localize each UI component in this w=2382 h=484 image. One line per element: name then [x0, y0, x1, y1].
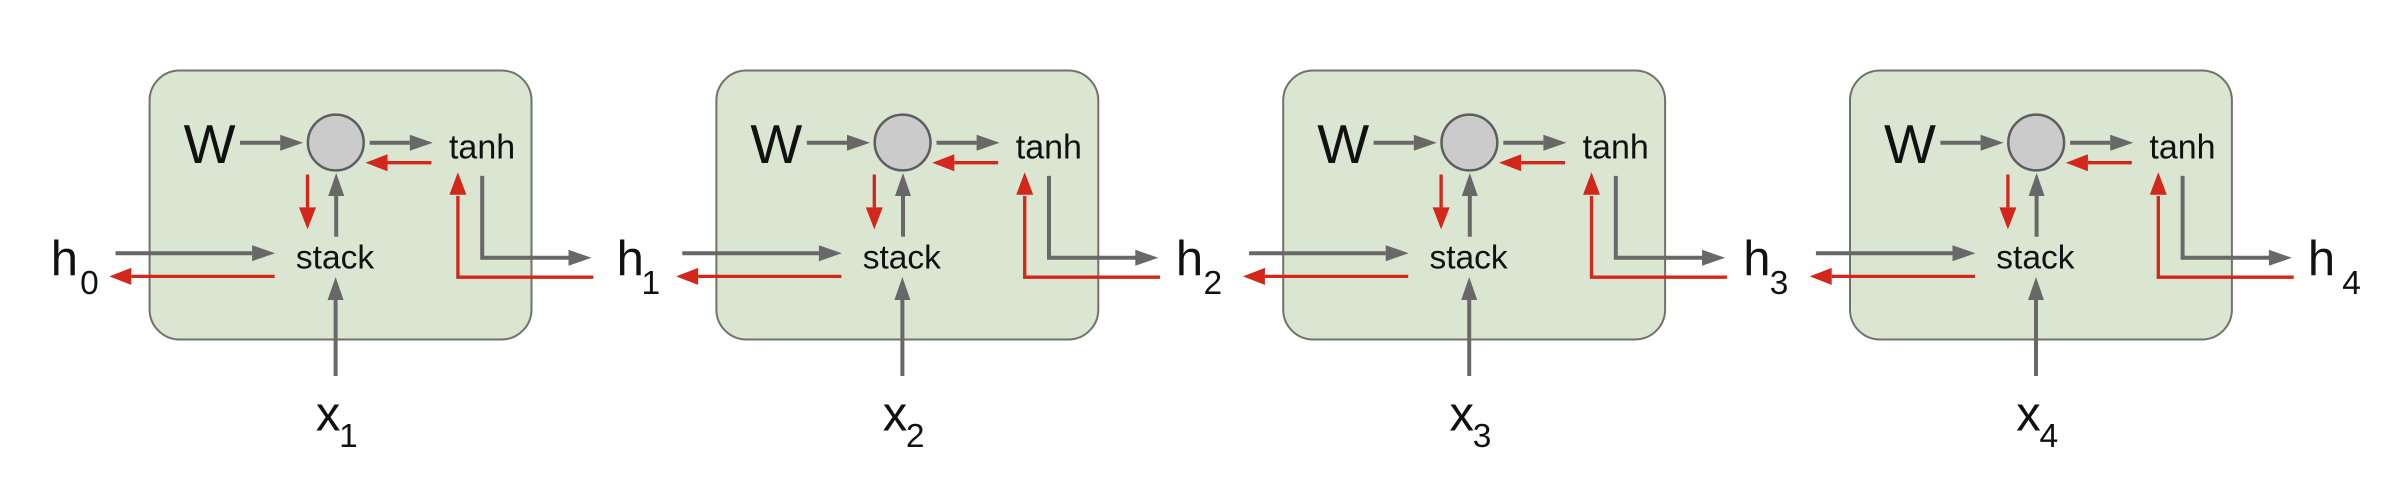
svg-text:x: x: [883, 388, 908, 442]
svg-text:W: W: [1884, 113, 1936, 175]
svg-text:3: 3: [1770, 265, 1789, 302]
node circle (cell 4): [2008, 115, 2064, 171]
svg-text:0: 0: [80, 265, 99, 302]
wire x4 up into stack (cell 4): [2034, 300, 2038, 376]
wire h2 into stack (cell 3): [1249, 251, 1386, 255]
red gradient wire tanh to node (cell 2): [954, 161, 998, 164]
svg-text:W: W: [1317, 113, 1369, 175]
wire x1 up into stack (cell 1): [334, 300, 338, 376]
wire W to node (cell 3): [1374, 141, 1414, 145]
red gradient wire node to stack (cell 1): [306, 175, 309, 208]
wire x2 up into stack (cell 2): [900, 300, 904, 376]
red gradient wire node to stack (cell 4): [2006, 175, 2009, 208]
svg-text:stack: stack: [1430, 240, 1508, 277]
red gradient wire tanh to node (cell 4): [2088, 161, 2132, 164]
red gradient wire from h1 left-up into tanh (cell 1): [458, 196, 593, 277]
wire W to node (cell 4): [1940, 141, 1980, 145]
svg-text:tanh: tanh: [449, 128, 515, 166]
red gradient wire tanh to node (cell 1): [388, 161, 432, 164]
svg-text:h: h: [51, 232, 78, 286]
red gradient wire node to stack (cell 3): [1439, 175, 1442, 208]
svg-text:x: x: [2016, 388, 2041, 442]
svg-text:W: W: [750, 113, 802, 175]
svg-text:3: 3: [1473, 418, 1492, 455]
wire node to tanh (cell 2): [937, 141, 977, 145]
wire W to node (cell 1): [240, 141, 280, 145]
wire h1 into stack (cell 2): [682, 251, 819, 255]
wire stack to node (cell 2): [901, 196, 905, 237]
svg-text:4: 4: [2342, 265, 2361, 302]
node circle (cell 1): [308, 115, 364, 171]
svg-text:h: h: [1743, 232, 1770, 286]
wire tanh down-right out to h4 (cell 4): [2183, 176, 2270, 258]
svg-text:W: W: [184, 113, 236, 175]
wire tanh down-right out to h2 (cell 2): [1049, 176, 1136, 258]
red gradient wire node to stack (cell 2): [873, 175, 876, 208]
wire W to node (cell 2): [807, 141, 847, 145]
svg-text:h: h: [1176, 232, 1203, 286]
red gradient wire from h4 left-up into tanh (cell 4): [2158, 196, 2293, 277]
wire x3 up into stack (cell 3): [1467, 300, 1471, 376]
svg-text:1: 1: [642, 265, 661, 302]
red gradient wire stack back to h2 (cell 3): [1265, 275, 1408, 278]
node circle (cell 3): [1442, 115, 1498, 171]
svg-text:stack: stack: [863, 240, 941, 277]
svg-text:2: 2: [906, 418, 925, 455]
wire h3 into stack (cell 4): [1816, 251, 1953, 255]
red gradient wire tanh to node (cell 3): [1521, 161, 1565, 164]
svg-text:stack: stack: [296, 240, 374, 277]
svg-text:h: h: [2308, 232, 2335, 286]
wire tanh down-right out to h1 (cell 1): [482, 176, 569, 258]
wire node to tanh (cell 3): [1503, 141, 1543, 145]
svg-text:tanh: tanh: [2149, 128, 2215, 166]
wire tanh down-right out to h3 (cell 3): [1616, 176, 1703, 258]
wire stack to node (cell 4): [2035, 196, 2039, 237]
svg-text:tanh: tanh: [1016, 128, 1082, 166]
svg-text:1: 1: [339, 418, 358, 455]
wire h0 into stack (cell 1): [116, 251, 253, 255]
red gradient wire stack back to h3 (cell 4): [1832, 275, 1975, 278]
svg-text:x: x: [1450, 388, 1475, 442]
red gradient wire stack back to h0 (cell 1): [131, 275, 274, 278]
wire node to tanh (cell 4): [2070, 141, 2110, 145]
svg-text:tanh: tanh: [1583, 128, 1649, 166]
wire node to tanh (cell 1): [370, 141, 410, 145]
node circle (cell 2): [875, 115, 931, 171]
RNN cell 2 box: [716, 71, 1098, 340]
red gradient wire from h2 left-up into tanh (cell 2): [1025, 196, 1160, 277]
RNN cell 4 box: [1850, 71, 2232, 340]
RNN cell 1 box: [150, 71, 532, 340]
svg-text:h: h: [617, 232, 644, 286]
svg-text:x: x: [316, 388, 341, 442]
wire stack to node (cell 3): [1468, 196, 1472, 237]
red gradient wire stack back to h1 (cell 2): [698, 275, 841, 278]
svg-text:2: 2: [1204, 265, 1223, 302]
svg-text:4: 4: [2040, 418, 2059, 455]
svg-text:stack: stack: [1996, 240, 2074, 277]
red gradient wire from h3 left-up into tanh (cell 3): [1592, 196, 1727, 277]
wire stack to node (cell 1): [334, 196, 338, 237]
RNN cell 3 box: [1283, 71, 1665, 340]
